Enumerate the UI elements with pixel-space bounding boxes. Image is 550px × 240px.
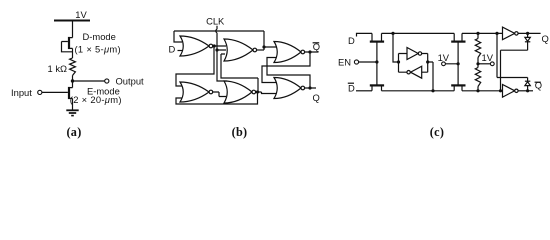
resistor R1 (top pull to 1V) xyxy=(477,33,479,38)
terminal 1V bias right xyxy=(490,62,494,66)
node EN gate junction xyxy=(375,60,378,63)
svg-text:D: D xyxy=(169,43,176,54)
wire mid to 1V terminal xyxy=(478,63,490,65)
svg-text:Q: Q xyxy=(313,92,320,103)
inverter U4 (bottom output) xyxy=(503,85,515,98)
svg-text:D: D xyxy=(348,83,355,94)
wire latch node A tap xyxy=(393,33,399,62)
NOR gate G2 (3-input) xyxy=(224,39,253,61)
wire CLK vertical with hop over rail xyxy=(216,26,217,50)
wire U3 out to Q xyxy=(518,32,541,34)
wire Qbar feedback up xyxy=(497,33,528,77)
wire gate2 output jog xyxy=(256,49,264,51)
wire E-mode source to ground xyxy=(72,98,74,110)
svg-text:1V: 1V xyxy=(75,9,87,20)
node Qbar junction xyxy=(308,50,311,53)
NOR gate G5 xyxy=(224,81,252,103)
NOR gate G3 xyxy=(274,42,301,63)
ground xyxy=(66,110,78,115)
wire D input xyxy=(178,50,185,52)
wire resistor to output node xyxy=(72,76,74,82)
transistor M3 pass (top, gate at 1V) xyxy=(451,33,465,41)
node resistor mid xyxy=(476,62,479,65)
svg-text:(b): (b) xyxy=(232,125,248,139)
wire N3 rail from gate2 out to gate1 and gate3 inputs xyxy=(174,31,277,50)
wire top data line xyxy=(382,32,506,34)
svg-text:(c): (c) xyxy=(430,125,444,139)
NOR gate G4 xyxy=(180,82,209,102)
node CLK tap xyxy=(215,48,218,51)
resistor R2 (bottom pull to 1V) xyxy=(477,64,479,68)
wire bottom data line xyxy=(382,90,506,92)
node G5 output xyxy=(256,90,259,93)
terminal EN xyxy=(354,60,358,64)
NOR gate G1 xyxy=(180,36,209,56)
svg-text:1 kΩ: 1 kΩ xyxy=(48,63,68,74)
wire latch right side xyxy=(422,54,433,91)
wire node to E-mode drain xyxy=(70,81,73,88)
wire to Output terminal xyxy=(73,80,105,82)
terminal 1V bias left xyxy=(442,62,446,66)
wire U4 out to Qbar xyxy=(518,90,533,92)
node Q out junction xyxy=(526,32,529,35)
inverter U2 (latch, left-facing) xyxy=(411,66,422,78)
svg-text:(2 × 20-μm): (2 × 20-μm) xyxy=(70,94,122,105)
wire rail to D-mode drain xyxy=(70,21,73,38)
diode D2 (Qbar feedback) xyxy=(525,78,530,91)
transistor M4 pass (bottom, gate at 1V) xyxy=(451,85,465,90)
svg-text:D: D xyxy=(348,35,355,46)
transistor M1 pass (D side) xyxy=(370,33,384,62)
svg-text:Input: Input xyxy=(11,87,32,98)
svg-text:(1 × 5-μm): (1 × 5-μm) xyxy=(75,43,121,54)
transistor E-mode (driver) xyxy=(42,87,73,99)
node output junction xyxy=(71,79,74,82)
resistor R 1 kOhm xyxy=(70,58,76,76)
svg-text:Q: Q xyxy=(535,80,542,91)
inverter U1 (latch, right-facing) xyxy=(407,48,418,60)
node Q junction xyxy=(308,86,311,89)
inverter U3 (top output) xyxy=(503,27,515,40)
wire N2 net from gate5 out xyxy=(176,92,277,104)
svg-text:Q: Q xyxy=(542,33,549,44)
wire latch left side xyxy=(399,54,408,73)
transistor M2 pass (Dbar side) xyxy=(370,62,384,91)
node B on bottom line xyxy=(431,89,434,92)
node resistor top tap xyxy=(476,32,479,35)
node Qbar out junction xyxy=(526,89,529,92)
wire source to resistor xyxy=(72,48,74,58)
transistor D-mode (depletion load) xyxy=(62,37,73,52)
node 1V gate junction xyxy=(457,62,460,65)
node resistor bottom tap xyxy=(476,89,479,92)
wire Q feedback to gate3 in2 xyxy=(267,58,316,89)
svg-text:EN: EN xyxy=(338,56,351,67)
svg-text:1V: 1V xyxy=(438,52,450,63)
wire Dbar to pass FET xyxy=(356,90,372,92)
wire Qbar feedback to gate6 in1 xyxy=(262,52,319,83)
wire Q feedback down xyxy=(501,50,528,91)
node G1 output xyxy=(213,44,216,47)
NOR gate G6 xyxy=(274,78,301,99)
svg-text:CLK: CLK xyxy=(206,16,225,27)
wire N2 up path to gate2 in3 xyxy=(221,54,258,92)
wire EN to gates xyxy=(359,61,377,63)
terminal Input xyxy=(38,90,42,94)
terminal Output xyxy=(105,79,109,83)
node latch left xyxy=(397,60,400,63)
svg-text:(a): (a) xyxy=(66,125,81,139)
node bottom line feedback tap xyxy=(499,89,502,92)
wire gate4 out to gate5 in2 xyxy=(213,92,226,97)
svg-text:D-mode: D-mode xyxy=(83,31,116,42)
node N3 tap xyxy=(262,45,265,48)
diode D1 (Q feedback) xyxy=(525,33,530,50)
power rail xyxy=(54,20,90,22)
wire 1V to M3/M4 gates xyxy=(445,42,458,84)
svg-text:1V: 1V xyxy=(482,52,494,63)
node top line feedback tap xyxy=(495,32,498,35)
wire D to pass FET xyxy=(357,33,373,36)
node A on top line xyxy=(391,32,394,35)
wire N4 net gate1 out to gate2 in1 and gate4 in1 xyxy=(176,46,226,86)
node latch right xyxy=(426,60,429,63)
wire CLK to gate2 in2 and gate5 in1 xyxy=(217,50,227,81)
